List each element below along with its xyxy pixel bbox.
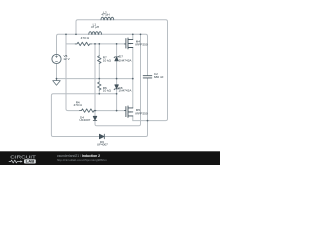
node y93.8/R6 xyxy=(98,93,100,95)
svg-text:IRFP250: IRFP250 xyxy=(135,112,147,116)
svg-text:470 Ω: 470 Ω xyxy=(74,103,83,107)
wire D7 top stub xyxy=(116,44,118,57)
label L1 xyxy=(91,23,99,29)
wire upper gate wire right of R3 to M4 gate xyxy=(92,43,125,45)
wire bottom-left loop: from D6 anode left, up left side, right along y=93.8 xyxy=(51,94,116,137)
wire L2 loop: riser x=76, top wire y=19.8, right edge down x=167.5, drain2 wire y=120.6 xyxy=(76,20,168,121)
CircuitLab logo resistor squiggle wire xyxy=(9,160,20,163)
wire M4 drain riser xyxy=(132,34,134,39)
wire D8 bottom stub xyxy=(116,89,118,94)
label R4 xyxy=(74,100,83,106)
node gnd/R6R7 xyxy=(98,78,100,80)
svg-text:47 µH: 47 µH xyxy=(101,13,109,17)
diode D4 xyxy=(93,116,97,120)
resistor R4 xyxy=(80,109,96,112)
wire D8 top stub xyxy=(116,79,118,85)
label D8 xyxy=(119,86,133,93)
node drain1/x141 riser xyxy=(140,33,142,35)
node gnd/D7D8 xyxy=(116,78,118,80)
wire D7 bottom stub xyxy=(116,61,118,79)
wire lower gate wire right of R4 to M5 gate xyxy=(94,110,125,112)
label D4 xyxy=(79,116,90,123)
label M4 xyxy=(135,39,147,46)
svg-text:470 Ω: 470 Ω xyxy=(81,36,90,40)
svg-text:http://circuitlab.com/c5pmmkrg: http://circuitlab.com/c5pmmkrg986hm xyxy=(57,158,107,162)
ground xyxy=(53,79,61,86)
label R7 xyxy=(103,55,112,62)
zener diode D7 xyxy=(114,56,119,61)
wire gate feed column x=66 down to lower gate wire y=110.9 xyxy=(66,34,80,110)
voltage source V5 xyxy=(52,54,61,63)
wire upper gate wire y=44.7 left of R3 xyxy=(66,43,75,45)
node junction dots xyxy=(56,33,149,121)
wire M4 source / M5 source column xyxy=(132,48,134,108)
wire R6 bottom stub xyxy=(98,90,100,94)
CircuitLab logo LAB box xyxy=(24,159,36,163)
wire ground rail y=78.6 from V5 minus to MOSFET source column xyxy=(57,64,133,79)
node drain2/C2 xyxy=(147,120,149,122)
label M5 xyxy=(135,108,147,116)
svg-text:1N4742A: 1N4742A xyxy=(119,58,133,62)
wire gate2 link x=116.6 from y=93.8 to y=110.9 xyxy=(116,94,118,111)
label D6 xyxy=(97,140,108,147)
inductor L1 xyxy=(89,32,102,35)
node gate1/D7 xyxy=(116,43,118,45)
wire C2 bottom column down to bottom-right corner, left along y=136.5 to D6 cathode xyxy=(104,78,147,136)
node y93.8/D8 xyxy=(116,93,118,95)
resistor R7 xyxy=(98,56,101,64)
footer bar xyxy=(0,151,220,165)
wire +12V spine: V5 top up, right along y=34.3, corner down C2 column xyxy=(57,34,148,75)
label L2 xyxy=(101,10,109,16)
wire M5 drain lead down to drain2 wire xyxy=(132,116,134,121)
node gate1/D4 riser xyxy=(94,43,96,45)
inductor L2 xyxy=(101,17,114,20)
svg-text:1N4742A: 1N4742A xyxy=(119,89,133,93)
node gnd/V5 xyxy=(56,78,58,80)
svg-text:12 V: 12 V xyxy=(63,57,70,61)
label R3 value xyxy=(81,36,90,40)
wire R7 bottom stub xyxy=(98,63,100,78)
svg-text:IRFP250: IRFP250 xyxy=(135,43,147,47)
node gate2/x116.6 xyxy=(116,110,118,112)
svg-text:10 kΩ: 10 kΩ xyxy=(103,89,112,93)
wire R6 top stub xyxy=(98,79,100,82)
resistor R6 xyxy=(98,82,101,90)
node gnd/source column xyxy=(132,78,134,80)
MOSFET M5 (flipped) xyxy=(125,106,133,117)
svg-text:47 µH: 47 µH xyxy=(91,25,99,29)
wire D4 column: from gate2 wire down through D4, corner right along y=125.8, up x=141 to drain1 xyxy=(95,34,141,126)
zener diode D8 xyxy=(114,85,119,90)
label C2 xyxy=(154,72,164,79)
svg-text:10 kΩ: 10 kΩ xyxy=(103,58,112,62)
diode D6 xyxy=(99,134,104,139)
label V5 value xyxy=(63,54,70,61)
node gate2/D4 xyxy=(94,110,96,112)
svg-text:UF4007: UF4007 xyxy=(79,118,90,122)
capacitor C2 xyxy=(143,76,152,78)
label D7 xyxy=(119,54,133,62)
node drain1/M4 drain xyxy=(132,33,134,35)
node +12/x66 xyxy=(65,33,67,35)
node +12/x76 xyxy=(75,33,77,35)
MOSFET M4 xyxy=(125,38,133,49)
svg-text:680 nF: 680 nF xyxy=(154,75,164,79)
wire R7 top stub xyxy=(98,44,100,56)
svg-text:LAB: LAB xyxy=(26,159,35,164)
svg-text:UF4007: UF4007 xyxy=(97,143,108,147)
resistor R3 xyxy=(75,42,91,45)
node gate1/R7 xyxy=(98,43,100,45)
label R6 xyxy=(103,86,112,93)
CircuitLab logo arrowhead xyxy=(20,160,22,162)
